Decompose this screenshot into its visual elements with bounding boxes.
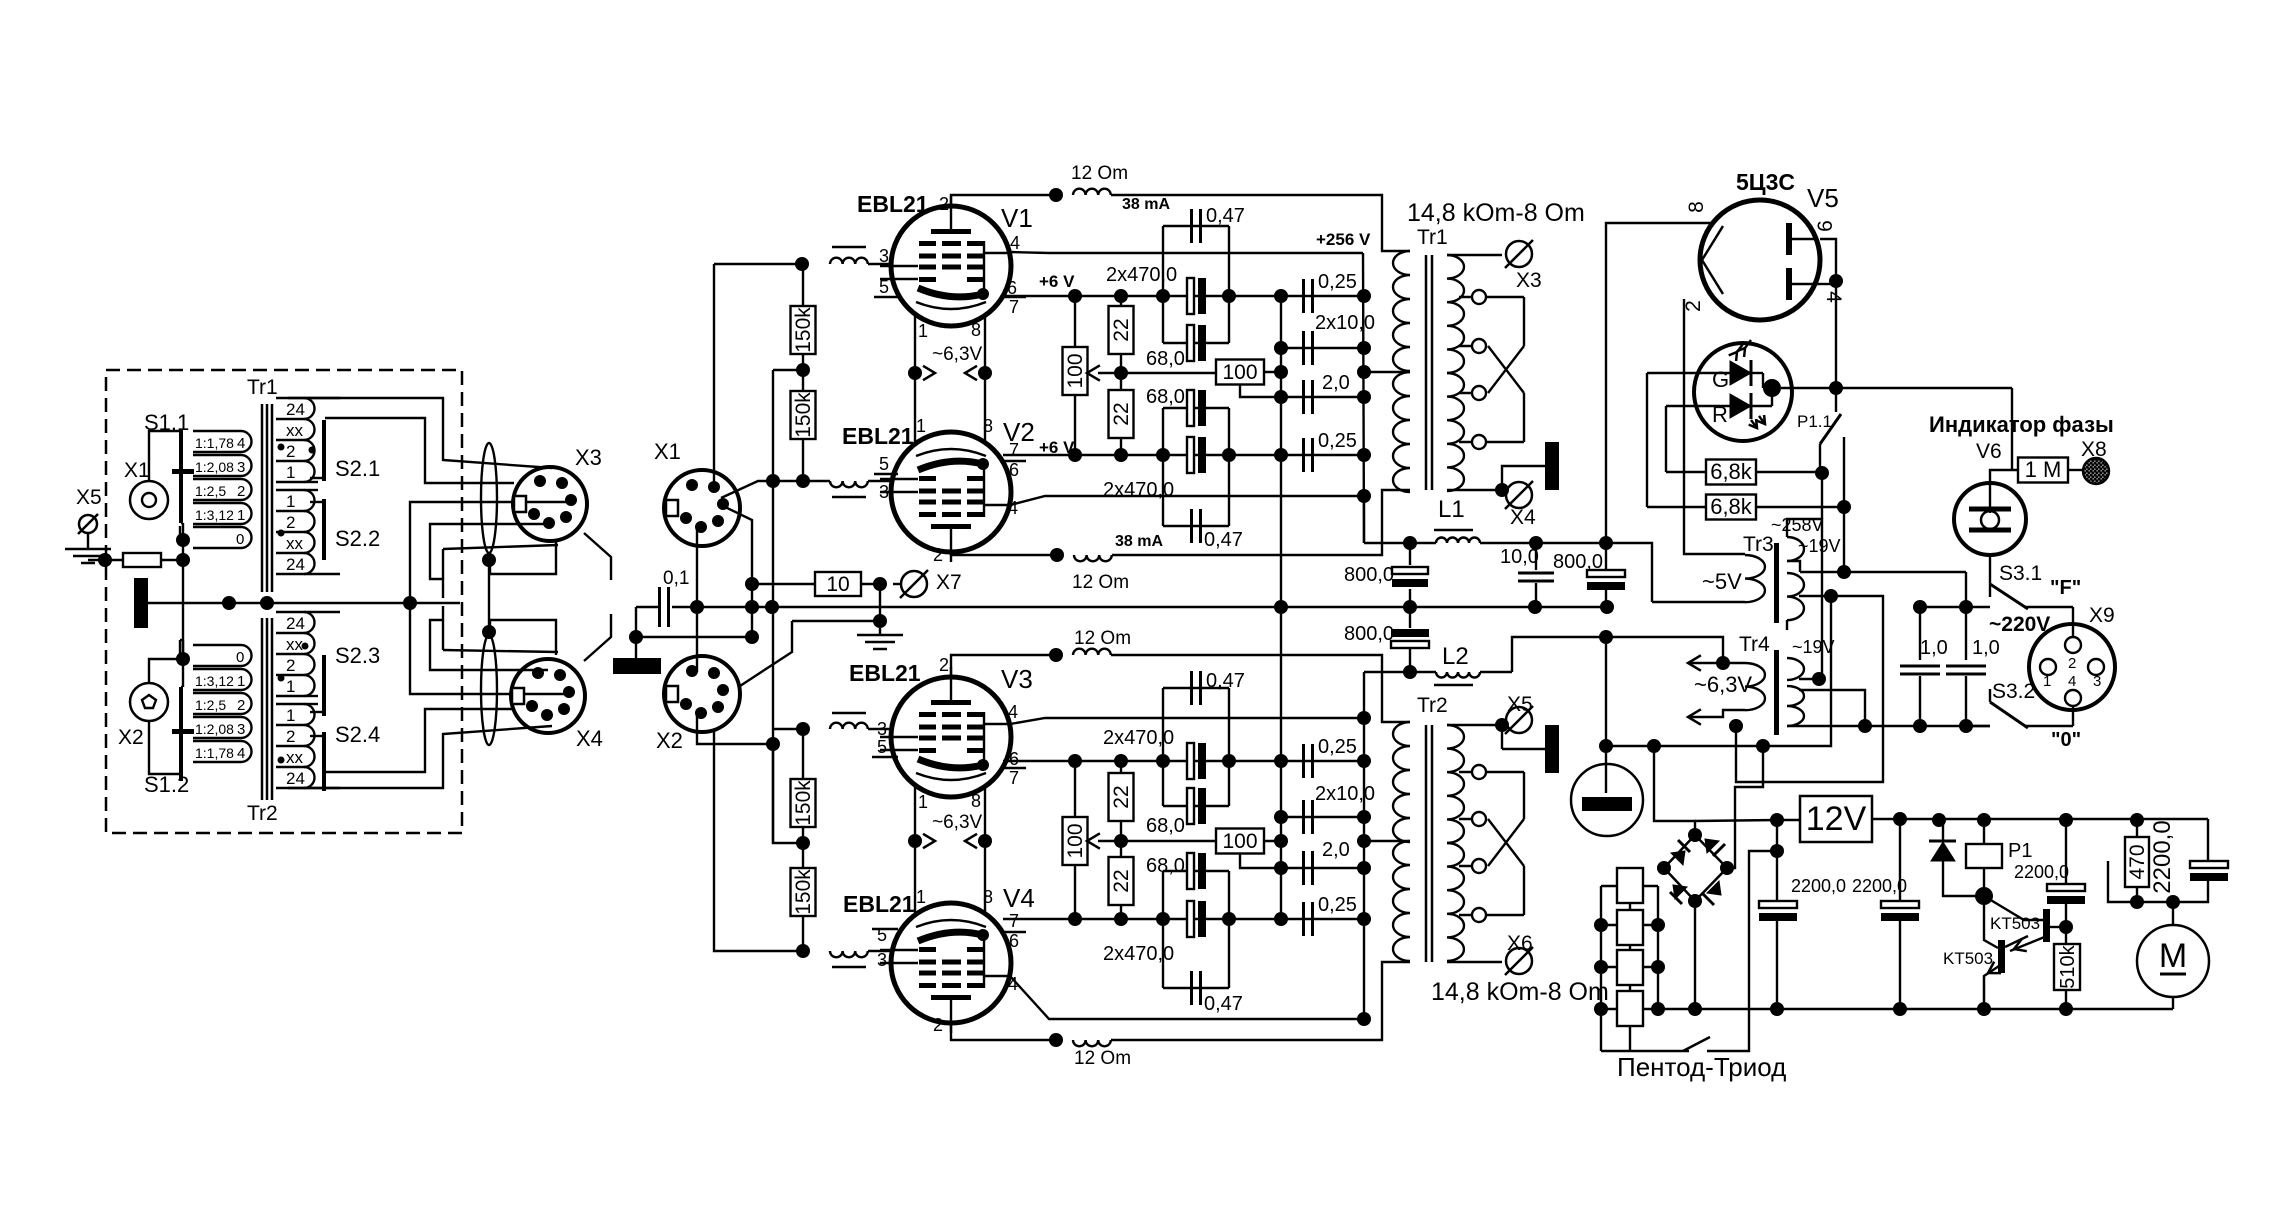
earth circle: [1571, 764, 1643, 836]
terminal X7: [901, 571, 927, 597]
svg-text:38 mA: 38 mA: [1115, 533, 1163, 550]
svg-text:2: 2: [933, 1015, 943, 1035]
svg-text:38 mA: 38 mA: [1122, 196, 1170, 213]
capacitor 0,47 (d): [1163, 987, 1229, 989]
resistor 10: [752, 583, 815, 585]
resistor 6,8k (1): [1706, 460, 1756, 485]
resistor 510k: [2054, 944, 2080, 990]
grid coil V3: [773, 728, 803, 730]
svg-text:~220V: ~220V: [1989, 613, 2050, 636]
svg-text:L1: L1: [1438, 496, 1465, 523]
wire V3 anode to Tr2 top: [1111, 655, 1410, 722]
svg-text:100: 100: [1064, 353, 1087, 388]
svg-text:X9: X9: [2089, 604, 2115, 627]
capacitor 0,25 bottom: [1302, 438, 1305, 472]
svg-text:EBL21: EBL21: [849, 660, 921, 686]
svg-text:3: 3: [879, 482, 889, 502]
svg-text:470: 470: [2126, 844, 2149, 879]
svg-text:1: 1: [286, 677, 295, 696]
resistor 100 V3: [1063, 817, 1088, 865]
svg-text:xx: xx: [286, 534, 304, 553]
resistor 470: [2125, 837, 2149, 887]
wire: [635, 607, 637, 658]
svg-text:1: 1: [916, 416, 926, 436]
svg-text:2200,0: 2200,0: [1791, 876, 1846, 896]
svg-text:1:2,08: 1:2,08: [195, 459, 234, 475]
svg-text:0,25: 0,25: [1318, 736, 1357, 758]
wire ~5V bottom to L1 node: [1609, 543, 1652, 602]
wire V4 anode to Tr2 bottom: [1111, 962, 1410, 1040]
svg-text:KT503: KT503: [1943, 949, 1993, 968]
svg-text:S3.1: S3.1: [1999, 562, 2042, 585]
svg-text:1:1,78: 1:1,78: [195, 745, 234, 761]
svg-text:Tr1: Tr1: [1417, 226, 1448, 249]
svg-text:Пентод-Триод: Пентод-Триод: [1617, 1052, 1786, 1082]
svg-text:150k: 150k: [792, 392, 815, 438]
svg-text:12 Om: 12 Om: [1071, 163, 1128, 184]
svg-text:3: 3: [2093, 673, 2101, 690]
svg-text:~6,3V: ~6,3V: [1694, 672, 1752, 697]
svg-text:4: 4: [1008, 702, 1018, 722]
wire V3 anode: [951, 655, 1056, 677]
input matching unit dashed enclosure: [106, 370, 462, 833]
svg-text:~6,3V: ~6,3V: [932, 344, 983, 365]
LED G: [1730, 361, 1751, 385]
diode VD: [1929, 840, 1956, 843]
svg-text:1: 1: [2043, 673, 2051, 690]
svg-text:G: G: [1712, 367, 1729, 392]
svg-text:~6,3V: ~6,3V: [932, 812, 983, 833]
svg-text:7: 7: [1009, 768, 1019, 788]
heater lines V1-V2: [914, 314, 916, 444]
wire 12V out rail: [1900, 818, 2208, 820]
wires S2.1 S2.2 to X3: [288, 398, 552, 468]
svg-text:8: 8: [1685, 201, 1708, 213]
svg-text:2: 2: [939, 655, 949, 675]
terminal X5 out: [1506, 707, 1532, 733]
svg-text:Tr2: Tr2: [1417, 694, 1448, 717]
svg-text:X3: X3: [1516, 269, 1542, 292]
svg-text:68,0: 68,0: [1146, 348, 1185, 370]
svg-text:V4: V4: [1003, 883, 1035, 913]
wire motor top: [2137, 901, 2173, 903]
Tr1 secondary taps: [1447, 254, 1502, 256]
svg-text:3: 3: [237, 721, 245, 738]
resistor 22 top: [1120, 296, 1122, 306]
svg-text:~19V: ~19V: [1792, 637, 1835, 657]
arrow mains top: [1688, 662, 1723, 664]
svg-text:8: 8: [971, 320, 981, 340]
svg-text:5Ц3С: 5Ц3С: [1736, 169, 1795, 195]
svg-text:"F": "F": [2050, 577, 2081, 599]
choke 12 Om top: [1073, 189, 1111, 195]
wire V2 anode to Tr1 bottom: [1112, 490, 1410, 555]
grid coil V4: [830, 951, 868, 957]
svg-text:+6 V: +6 V: [1039, 272, 1075, 291]
wire V6 top: [1990, 470, 2018, 483]
wire: [773, 744, 803, 843]
svg-text:2200,0: 2200,0: [2014, 862, 2069, 882]
svg-text:5: 5: [879, 454, 889, 474]
screen bar: [613, 658, 661, 674]
svg-text:3: 3: [877, 950, 887, 970]
V5 heater filament: [1702, 226, 1723, 294]
wire y388 to phase indicator: [1836, 387, 2012, 389]
wire speaker bar bottom link: [1502, 748, 1547, 750]
capacitor 2x10,0 (b): [1281, 816, 1364, 818]
wire bridge feed right: [1727, 746, 1763, 868]
crossover X: [1488, 346, 1524, 393]
svg-text:2200,0: 2200,0: [2149, 820, 2176, 893]
wire V5 pin6 to pin4: [1820, 239, 1836, 281]
svg-text:S2.4: S2.4: [335, 722, 380, 747]
wires Tr2 taps: [304, 611, 340, 613]
capacitor 0,47 (c): [1163, 687, 1229, 689]
motor M: [2137, 925, 2209, 997]
main negative bus: [1601, 1008, 2173, 1010]
wire LED anodes: [1647, 372, 1730, 374]
bus V4: [1003, 918, 1364, 920]
svg-text:68,0: 68,0: [1146, 386, 1185, 408]
wire: [636, 636, 752, 638]
svg-text:"0": "0": [2051, 729, 2081, 751]
svg-text:L2: L2: [1442, 643, 1469, 670]
svg-text:68,0: 68,0: [1146, 815, 1185, 837]
svg-text:P1.1: P1.1: [1797, 412, 1832, 431]
capacitor 68,0 (b): [1163, 407, 1229, 409]
LED common node: [1763, 379, 1781, 397]
svg-text:1,0: 1,0: [1920, 637, 1948, 659]
choke 12 Om V4: [1073, 1040, 1111, 1046]
wire: [88, 559, 123, 561]
LED R: [1730, 394, 1751, 418]
svg-text:2: 2: [939, 194, 949, 214]
ground: [87, 533, 89, 549]
chassis bar: [134, 578, 148, 628]
svg-text:22: 22: [1110, 402, 1133, 425]
svg-text:1:2,08: 1:2,08: [195, 721, 234, 737]
grid coil V2: [803, 480, 830, 482]
resistor 100 V1: [1063, 347, 1088, 395]
svg-text:EBL21: EBL21: [842, 423, 914, 449]
svg-text:12 Om: 12 Om: [1074, 628, 1131, 649]
wire V3 cathode 100 ohm: [1074, 761, 1076, 817]
svg-text:1: 1: [237, 673, 245, 690]
svg-text:0,47: 0,47: [1206, 670, 1245, 692]
wire y607 segment: [1920, 606, 1990, 608]
Tr2 primary winding: [1393, 722, 1410, 842]
Tr1 secondary winding: [1447, 255, 1464, 373]
svg-text:Tr2: Tr2: [247, 802, 278, 825]
svg-text:8: 8: [971, 791, 981, 811]
wire grid V4 riser: [714, 731, 803, 951]
svg-text:X1: X1: [654, 439, 681, 464]
bracket 470: [2108, 861, 2137, 902]
wire bridge bottom: [1694, 901, 1696, 1009]
capacitor 0,25 top: [1302, 279, 1305, 313]
svg-text:2: 2: [237, 483, 245, 500]
svg-text:5: 5: [877, 737, 887, 757]
Tr1 input secondary winding: [276, 397, 304, 399]
svg-text:22: 22: [1110, 869, 1133, 892]
svg-text:6,8k: 6,8k: [1710, 494, 1753, 519]
svg-text:10,0: 10,0: [1500, 546, 1539, 568]
capacitor 2x470,0 (d): [1187, 901, 1194, 937]
wire V1 cathode 100 ohm: [1074, 296, 1076, 347]
wire Tr3 tap staircase: [1736, 596, 1883, 782]
capacitor 2x470,0 (b): [1187, 437, 1194, 473]
svg-text:1: 1: [918, 321, 928, 341]
wire V1 pin4 +256V rail: [1010, 252, 1363, 253]
svg-text:X2: X2: [656, 728, 683, 753]
wire S1.1 bottom: [182, 526, 184, 540]
tap circles: [1459, 296, 1524, 298]
grid coil V1: [832, 246, 866, 248]
svg-text:2: 2: [933, 545, 943, 565]
node: [482, 553, 496, 567]
wire V5 pin2: [1684, 299, 1745, 554]
wire V5 pin8: [1606, 223, 1712, 543]
resistor 22 (c): [1120, 761, 1122, 773]
wire V2 anode: [951, 552, 1057, 555]
svg-text:Индикатор фазы: Индикатор фазы: [1929, 412, 2114, 437]
svg-text:0: 0: [236, 649, 244, 666]
speaker bar bottom: [1545, 725, 1559, 773]
X2 pin wires: [697, 713, 773, 744]
svg-text:12 Om: 12 Om: [1074, 1048, 1131, 1069]
svg-text:0: 0: [236, 531, 244, 548]
svg-text:2x10,0: 2x10,0: [1315, 312, 1375, 334]
grid bus vertical: [772, 370, 774, 843]
svg-text:1: 1: [916, 887, 926, 907]
capacitor 2x10,0: [1281, 347, 1364, 349]
capacitor 68,0 (c): [1163, 805, 1229, 807]
svg-text:510k: 510k: [2057, 944, 2079, 988]
capacitor 2,0: [1281, 396, 1364, 398]
S1.1 selector positions: [193, 430, 241, 432]
svg-text:24: 24: [286, 614, 305, 633]
svg-text:P1: P1: [2008, 840, 2032, 862]
capacitor 2x470,0 (c): [1187, 743, 1194, 779]
wire mid to Tr1 center: [1364, 371, 1410, 373]
wire L2 node to x1364: [1364, 671, 1410, 673]
svg-text:12 Om: 12 Om: [1072, 572, 1129, 593]
svg-text:1:2,5: 1:2,5: [195, 483, 226, 499]
svg-text:M: M: [2159, 937, 2187, 975]
Tr2 input secondary winding: [276, 611, 304, 613]
svg-text:10: 10: [826, 573, 849, 596]
choke 12 Om V2: [1074, 555, 1112, 561]
wire X1 to grid bus: [721, 481, 773, 498]
svg-text:68,0: 68,0: [1146, 855, 1185, 877]
heater lines V3-V4: [914, 785, 916, 915]
wire S1.2 top: [179, 640, 181, 655]
svg-text:2: 2: [2068, 655, 2076, 672]
svg-text:0,1: 0,1: [663, 568, 689, 589]
svg-text:2x10,0: 2x10,0: [1315, 783, 1375, 805]
capacitor 0,25 (c): [1302, 744, 1305, 778]
svg-text:1 M: 1 M: [2025, 457, 2062, 482]
main center bus: [672, 606, 1606, 608]
svg-text:EBL21: EBL21: [843, 891, 915, 917]
wire y637 to Tr4: [1606, 637, 1723, 663]
svg-text:1: 1: [918, 792, 928, 812]
wire grid V1 riser: [713, 264, 715, 487]
svg-text:1: 1: [286, 463, 295, 482]
svg-text:100: 100: [1222, 830, 1257, 853]
arrow to 100: [1087, 365, 1100, 380]
svg-text:6: 6: [1009, 460, 1019, 480]
svg-text:KT503: KT503: [1990, 914, 2040, 933]
wire bridge top to 12V: [1695, 820, 1777, 821]
resistor 22 bottom: [1120, 373, 1122, 390]
diode bridge: [1688, 828, 1702, 842]
wire mid to Tr2 center: [1364, 840, 1410, 842]
svg-text:2,0: 2,0: [1322, 839, 1350, 861]
svg-text:X1: X1: [124, 459, 150, 482]
bus V3: [1003, 760, 1364, 762]
svg-text:2,0: 2,0: [1322, 372, 1350, 394]
svg-text:150k: 150k: [792, 780, 815, 826]
svg-text:100: 100: [1222, 361, 1257, 384]
svg-text:V1: V1: [1001, 203, 1033, 233]
svg-text:1: 1: [286, 492, 295, 511]
wire X1 right pin diagonal: [723, 506, 752, 584]
resistor input: [123, 553, 161, 567]
svg-text:Tr3: Tr3: [1743, 533, 1774, 556]
svg-text:24: 24: [286, 769, 305, 788]
svg-text:14,8 kOm-8 Om: 14,8 kOm-8 Om: [1407, 199, 1585, 227]
svg-text:X6: X6: [1507, 932, 1533, 955]
svg-text:4: 4: [2068, 673, 2076, 690]
svg-text:1: 1: [286, 706, 295, 725]
column x1364 bottom: [1363, 672, 1365, 1019]
svg-text:S2.1: S2.1: [335, 456, 380, 481]
capacitor 68,0 (d): [1163, 870, 1229, 872]
svg-text:1,0: 1,0: [1972, 637, 2000, 659]
wire: [792, 620, 880, 622]
svg-text:7: 7: [1009, 297, 1019, 317]
resistor 150k R4: [802, 843, 804, 868]
svg-text:2: 2: [286, 656, 295, 675]
V5 anode plates: [1786, 223, 1792, 255]
svg-text:6: 6: [1009, 749, 1019, 769]
wire V2 pin4: [1010, 496, 1364, 505]
svg-text:2: 2: [237, 697, 245, 714]
cable screen X3: [481, 443, 497, 553]
svg-text:150k: 150k: [792, 869, 815, 915]
svg-text:800,0: 800,0: [1344, 564, 1394, 586]
svg-text:0,47: 0,47: [1204, 529, 1243, 551]
capacitor 2,0 (b): [1281, 867, 1364, 869]
wire to pentode switch: [1707, 851, 1777, 1051]
svg-text:6: 6: [1009, 931, 1019, 951]
svg-text:xx: xx: [286, 748, 304, 767]
wire x1844 to y572: [1843, 507, 1845, 572]
wires Tr1 taps: [304, 397, 340, 399]
svg-text:+256 V: +256 V: [1316, 230, 1371, 249]
svg-text:X5: X5: [76, 486, 102, 509]
wires S2.3 S2.4 to X4: [288, 726, 552, 788]
svg-text:3: 3: [237, 459, 245, 476]
svg-text:6: 6: [1814, 220, 1837, 232]
svg-text:Tr1: Tr1: [247, 376, 278, 399]
Tr1 primary winding: [1393, 251, 1410, 371]
svg-text:22: 22: [1110, 318, 1133, 341]
wire: [161, 559, 183, 561]
capacitor 0,47 bottom: [1163, 525, 1229, 527]
wire mid bottom: [1098, 840, 1216, 842]
resistor chain ladder: [1601, 885, 1658, 887]
svg-text:S2.2: S2.2: [335, 526, 380, 551]
svg-text:V6: V6: [1976, 440, 2002, 463]
resistor 1 M: [2018, 458, 2068, 483]
svg-text:5: 5: [879, 277, 889, 297]
svg-text:1:3,12: 1:3,12: [195, 673, 234, 689]
ground: [879, 584, 881, 635]
svg-text:0,25: 0,25: [1318, 271, 1357, 293]
Tr3 secondary lower: [1787, 573, 1804, 620]
svg-text:22: 22: [1110, 785, 1133, 808]
resistor 150k R3: [802, 729, 804, 780]
S1.2 selector positions: [193, 668, 241, 670]
svg-text:2: 2: [286, 727, 295, 746]
wire x1822 to Tr4: [1821, 473, 1823, 679]
resistor 6,8k (2): [1706, 495, 1756, 520]
wire V1 anode to 12 Om: [951, 195, 1056, 206]
svg-text:1: 1: [237, 507, 245, 524]
wire x1831 down to y746: [1606, 596, 1831, 746]
X4 tail wires: [490, 620, 556, 655]
svg-text:0,25: 0,25: [1318, 430, 1357, 452]
svg-text:X5: X5: [1507, 693, 1533, 716]
terminal X3 out: [1506, 241, 1532, 267]
svg-text:2: 2: [1682, 300, 1705, 312]
svg-text:2x470,0: 2x470,0: [1106, 264, 1177, 286]
wire V4 pin4: [1010, 976, 1364, 1019]
wire V5 cathode down: [1835, 281, 1837, 388]
resistor 150k R2: [802, 370, 804, 391]
svg-text:~5V: ~5V: [1702, 569, 1742, 594]
svg-text:2: 2: [286, 442, 295, 461]
svg-text:150k: 150k: [792, 307, 815, 353]
svg-text:0,25: 0,25: [1318, 894, 1357, 916]
svg-text:1:1,78: 1:1,78: [195, 435, 234, 451]
wire bridge feed left: [1654, 746, 1695, 835]
Tr2 bottom to X6: [1447, 961, 1502, 963]
resistor 22 (d): [1120, 841, 1122, 857]
svg-text:800,0: 800,0: [1344, 623, 1394, 645]
grid stopper 150k R1: [714, 263, 802, 265]
column x1281 bottom: [1280, 455, 1282, 919]
resistor 100 horizontal: [1216, 360, 1264, 385]
svg-text:4: 4: [1010, 233, 1020, 253]
svg-text:12V: 12V: [1806, 800, 1867, 838]
wire V4 anode: [951, 1023, 1056, 1040]
svg-text:2: 2: [286, 513, 295, 532]
svg-text:1:3,12: 1:3,12: [195, 507, 234, 523]
svg-text:100: 100: [1064, 823, 1087, 858]
svg-text:1:2,5: 1:2,5: [195, 697, 226, 713]
wire mid top: [1098, 372, 1216, 374]
svg-text:6,8k: 6,8k: [1710, 459, 1753, 484]
Tr1 secondary bottom to X4: [1447, 489, 1502, 491]
speaker bar top: [1545, 442, 1559, 490]
LED indicator assembly: [1694, 343, 1792, 441]
svg-text:7: 7: [1009, 911, 1019, 931]
cable screen X4: [481, 635, 497, 745]
choke 12 Om V3: [1073, 649, 1111, 655]
